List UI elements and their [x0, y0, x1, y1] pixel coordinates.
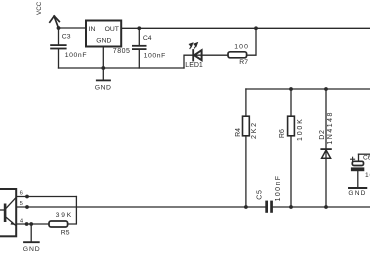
node R7 junction — [254, 26, 258, 30]
svg-text:LED1: LED1 — [185, 62, 203, 69]
capacitor C3 — [50, 28, 66, 68]
resistor R5 — [49, 221, 68, 227]
svg-text:OUT: OUT — [105, 26, 119, 33]
svg-text:C6: C6 — [363, 155, 370, 162]
svg-text:C5: C5 — [257, 189, 264, 200]
svg-text:5: 5 — [20, 201, 23, 207]
svg-text:VCC: VCC — [36, 1, 43, 15]
plus sign of C6 — [351, 157, 355, 161]
ground symbol GND (bottom left) — [24, 241, 39, 243]
svg-text:100nF: 100nF — [144, 52, 166, 59]
wire middle bus — [246, 88, 370, 90]
diode D2 — [321, 89, 331, 207]
resistor R7 — [228, 52, 247, 58]
svg-text:100nF: 100nF — [275, 175, 282, 202]
resistor R6 — [288, 89, 295, 207]
svg-text:IN: IN — [89, 26, 96, 33]
svg-text:R4: R4 — [235, 128, 242, 137]
svg-text:C3: C3 — [62, 33, 71, 40]
capacitor C6 (electrolytic, clipped at right) — [351, 154, 370, 187]
svg-text:100nF: 100nF — [65, 52, 87, 59]
node D2 bottom junction — [324, 205, 328, 209]
svg-text:GND: GND — [95, 84, 112, 91]
wire VCC to regulator IN — [59, 27, 87, 29]
node R4 bottom junction — [244, 205, 248, 209]
node C4 top junction — [137, 26, 141, 30]
wire R5 to pin6 line — [68, 197, 77, 225]
wire pin4 to ground — [30, 224, 32, 242]
node D2 top junction — [324, 87, 328, 91]
svg-text:1N4148: 1N4148 — [327, 111, 334, 145]
node VCC junction — [57, 26, 61, 30]
ground symbol GND (left) — [97, 68, 110, 80]
wire bottom bus right of C5 — [273, 206, 370, 208]
svg-text:R6: R6 — [279, 129, 286, 138]
svg-text:GND: GND — [23, 246, 41, 253]
capacitor C4 — [132, 28, 147, 68]
wire LED anode to R7 — [202, 54, 228, 56]
node R6 bottom junction — [289, 205, 293, 209]
svg-text:100K: 100K — [297, 117, 304, 141]
wire regulator OUT 5V rail — [121, 27, 370, 29]
capacitor C5 (series) — [265, 201, 273, 213]
svg-text:2K2: 2K2 — [251, 121, 258, 139]
wire R7 to 5V rail — [247, 28, 256, 55]
node ground junction — [101, 66, 105, 70]
svg-text:C4: C4 — [143, 35, 152, 42]
svg-text:6: 6 — [20, 191, 23, 197]
svg-text:GND: GND — [348, 190, 366, 197]
svg-text:39K: 39K — [56, 212, 73, 219]
svg-text:R5: R5 — [61, 230, 70, 237]
ground symbol GND (right) — [349, 187, 366, 189]
svg-text:7805: 7805 — [113, 48, 131, 55]
wire regulator GND pin — [102, 47, 104, 69]
svg-text:GND: GND — [96, 38, 111, 45]
wire ground bus to LED cathode — [184, 55, 202, 68]
svg-text:100uF: 100uF — [365, 172, 370, 179]
svg-text:R7: R7 — [239, 59, 248, 66]
optocoupler U (clipped at left edge) — [0, 189, 16, 236]
svg-text:100: 100 — [234, 44, 249, 51]
svg-text:D2: D2 — [319, 129, 326, 140]
wire bottom bus left of C5 — [16, 206, 265, 208]
node R6 top junction — [289, 87, 293, 91]
voltage regulator U 7805 — [86, 21, 121, 47]
LED LED1 — [189, 43, 201, 61]
wire ground bus left — [59, 67, 185, 69]
VCC supply arrow — [50, 16, 60, 28]
resistor R4 — [243, 89, 250, 207]
